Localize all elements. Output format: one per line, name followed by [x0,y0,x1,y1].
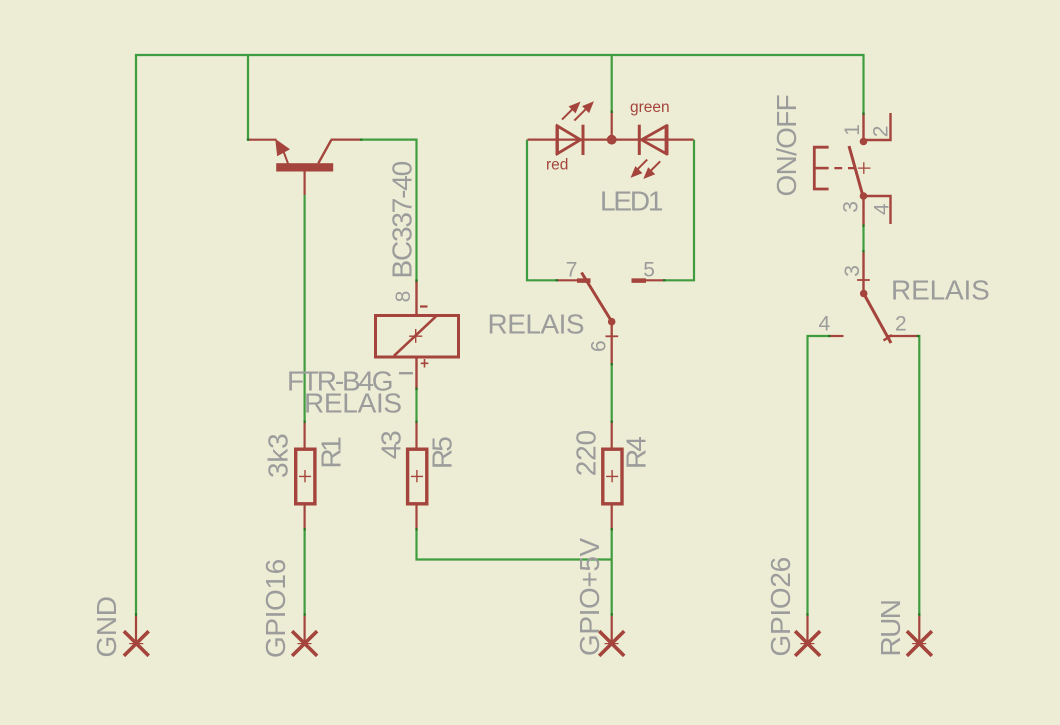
blade [582,273,612,322]
pin 2 lead [888,335,919,337]
svg-text:7: 7 [566,258,578,281]
wire drop to LED junction [611,55,613,111]
pin 4 elbow [864,196,891,224]
relay contact S3 pins 3/2/4 RELAIS [819,253,990,344]
svg-text:R1: R1 [316,437,347,469]
pin 6 lead [611,322,613,364]
wire drop to transistor emitter [247,55,249,140]
svg-text:220: 220 [570,430,601,476]
red LED anode bar [556,125,559,155]
pin 3 lead down [862,196,864,225]
plus sign [421,359,429,368]
wire R1 to GPIO16 pin [304,531,306,616]
relay coil K1 FTR-B4G [287,280,459,419]
LED1 dual red/green [528,99,694,216]
svg-text:8: 8 [392,291,415,303]
svg-text:2: 2 [870,126,893,138]
wire R5 to +5V net [417,531,612,560]
pin symbol GPIO16 [260,559,317,658]
svg-text:GND: GND [91,596,122,657]
pin 5 contact tick [632,278,647,283]
svg-text:GPIO+5V: GPIO+5V [574,537,605,656]
relay contact S1 pins 7/6/5 [488,258,666,364]
switch S2 ON/OFF [771,95,893,225]
green LED triangle [642,126,667,154]
svg-text:BC337-40: BC337-40 [386,161,417,278]
pivot dot [608,318,616,326]
wire relay coil to R5 [415,390,417,421]
svg-text:GPIO26: GPIO26 [765,557,796,656]
svg-text:RUN: RUN [875,601,906,657]
resistor R5 43 [376,421,458,531]
pin 1 lead [862,113,864,142]
wire ON/OFF to relay contact [862,225,864,253]
pin 3 dot [860,192,868,200]
green LED right bar [666,125,669,155]
red LED emission arrow 2 [574,109,586,121]
vertical lead to junction [611,111,613,140]
svg-text:3: 3 [839,201,862,213]
pin 1 dot [860,138,868,146]
bottom lead [415,358,417,391]
wire relay contact pin6 down [611,364,613,421]
junction dot [607,135,617,145]
wire collector to relay coil [360,140,417,280]
actuator bracket [814,147,828,189]
origin cross [409,329,422,343]
pin 7 lead [556,279,587,281]
pin 7 contact tick [577,278,591,283]
wire base to R1 [304,195,306,421]
pin 2 elbow [864,113,891,140]
wire relay contact pin2 to RUN [917,336,920,616]
actuator cross [858,162,870,174]
base lead [304,172,306,196]
svg-text:RELAIS: RELAIS [304,388,402,419]
wire R4 to GPIO+5V pin [611,531,613,616]
red LED cathode bar [582,125,585,155]
svg-text:5: 5 [643,259,655,282]
pivot dot [860,290,868,298]
wire LED left side [527,140,556,281]
green LED emission arrow 1 [637,160,648,171]
actuator dashes [834,167,855,169]
wire LED right side [666,140,695,281]
svg-text:4: 4 [819,313,831,336]
red LED triangle [558,126,581,154]
svg-text:red: red [546,157,568,174]
pin 3 lead [862,253,864,294]
pin 8 lead [415,280,417,316]
pin symbol GPIO26 [765,557,820,656]
svg-text:2: 2 [895,313,907,336]
svg-text:LED1: LED1 [600,185,663,216]
red LED emission arrow 1 [562,109,573,120]
svg-text:GPIO16: GPIO16 [260,559,291,658]
blade contact tick [884,335,893,341]
collector lead [318,140,331,164]
svg-text:RELAIS: RELAIS [891,275,990,306]
svg-text:R4: R4 [621,437,652,469]
resistor R1 3k3 [262,421,346,531]
svg-text:RELAIS: RELAIS [488,309,585,340]
wire GND net: left vertical + top horizontal + ON/OFF drop [136,55,864,616]
emitter arrow [275,139,290,156]
green LED cathode bar [638,125,641,155]
svg-text:green: green [630,99,670,116]
svg-text:1: 1 [841,124,864,136]
horizontal lead [528,139,694,141]
svg-text:ON/OFF: ON/OFF [771,95,802,197]
base bar [276,163,333,171]
pin 4 lead [828,335,844,337]
pin symbol RUN [875,601,932,657]
minus sign [420,305,428,307]
svg-text:3k3: 3k3 [262,433,293,478]
pin 6 tick [606,335,619,337]
emitter lead wire [248,139,277,141]
coil diagonal [394,316,436,355]
pin 5 lead [632,279,666,281]
svg-text:6: 6 [587,340,610,352]
coil box [376,316,459,358]
pin symbol GND [91,596,149,657]
blade [849,146,863,195]
blade [864,294,891,344]
resistor R4 220 [570,421,651,531]
svg-text:R5: R5 [427,437,458,469]
dash after label [399,372,413,374]
green LED emission arrow 2 [649,161,660,172]
wire junction overlaps [136,111,919,616]
pin symbol GPIO+5V [574,537,624,656]
svg-text:4: 4 [871,203,894,215]
transistor Q1 BC337-40 [248,139,417,303]
pin 3 tick [857,279,870,281]
svg-text:3: 3 [841,265,864,277]
wire relay contact pin4 to GPIO26 [808,336,829,616]
svg-text:43: 43 [376,431,407,459]
